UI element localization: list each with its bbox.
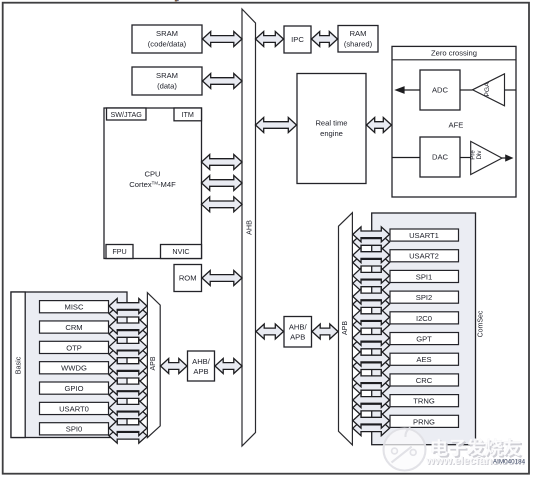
WWDG peripheral block [40, 362, 109, 374]
wire: APB to CRC (lower) [353, 379, 390, 394]
wire: ROM to AHB [202, 271, 242, 286]
wire: DAC to Pre Div [460, 157, 471, 159]
NVIC sub-block [161, 245, 202, 259]
SRAM (data) block [132, 67, 202, 95]
wire: CPU to AHB (bus 2) [202, 176, 243, 191]
svg-text:APB: APB [150, 356, 157, 370]
svg-text:(shared): (shared) [344, 40, 373, 49]
wire: CPU to AHB (bus 1) [202, 155, 243, 170]
wire: SPI0 to APB (lower) [109, 428, 147, 443]
USART1 peripheral block [390, 229, 459, 241]
I2C0 peripheral block [390, 312, 459, 324]
AHB bus label [244, 220, 253, 235]
svg-text:DAC: DAC [432, 153, 449, 162]
GPIO peripheral block [40, 382, 109, 394]
CRC peripheral block [390, 374, 459, 386]
wire: APB to USART2 (upper) [353, 248, 390, 263]
wire: IPC to RAM (shared) [312, 32, 338, 47]
svg-text:(code/data): (code/data) [148, 40, 187, 49]
OTP peripheral block [40, 341, 109, 353]
wire: AHB/APB bridge to APB (right) [312, 324, 338, 339]
svg-text:USART2: USART2 [409, 252, 439, 261]
svg-text:USART0: USART0 [59, 404, 89, 413]
wire: Pre Div output with right arrowhead [502, 154, 514, 161]
SRAM (code/data) block [132, 25, 202, 53]
SPI1 peripheral block [390, 270, 459, 282]
CRM peripheral block [40, 321, 109, 333]
Basic label [13, 356, 22, 374]
wire: APB to I2C0 (upper) [353, 310, 390, 325]
wire: GPIO to APB (lower) [109, 388, 147, 403]
wire: WWDG to APB (upper) [109, 360, 147, 375]
PRNG peripheral block [390, 415, 459, 427]
svg-text:AHB: AHB [244, 220, 253, 235]
wire: Real time engine to AFE [367, 118, 392, 133]
svg-text:GPIO: GPIO [65, 384, 84, 393]
wire: USART0 to APB (upper) [109, 400, 147, 415]
wire: APB to TRNG (lower) [353, 400, 390, 415]
svg-text:ROM: ROM [179, 274, 197, 283]
wire: OTP to APB (upper) [109, 339, 147, 354]
AHB bus bar [242, 9, 256, 446]
svg-text:CRM: CRM [65, 323, 82, 332]
svg-text:TRNG: TRNG [413, 397, 435, 406]
wire: MISC to APB (upper) [109, 299, 147, 314]
svg-text:AES: AES [416, 355, 431, 364]
CPU Cortex-M4F block [104, 108, 202, 259]
svg-text:AHB/: AHB/ [289, 323, 308, 332]
ROM block [174, 265, 202, 292]
AHB/APB bridge block (left) [188, 351, 215, 381]
svg-text:ComSec: ComSec [477, 310, 484, 337]
svg-text:PGA: PGA [484, 82, 491, 97]
svg-text:CRC: CRC [416, 376, 433, 385]
svg-text:NVIC: NVIC [172, 247, 189, 256]
Zero crossing header divider [392, 59, 516, 61]
svg-text:IPC: IPC [291, 35, 304, 44]
ITM sub-block [174, 108, 202, 121]
ADC block [420, 70, 460, 110]
svg-text:engine: engine [320, 129, 343, 138]
wire: APB to SPI2 (upper) [353, 289, 390, 304]
wire: CPU to AHB (bus 3) [202, 197, 243, 212]
svg-text:ITM: ITM [182, 110, 194, 119]
wire: APB to TRNG (upper) [353, 393, 390, 408]
svg-text:WWDG: WWDG [61, 364, 87, 373]
svg-text:CPU: CPU [144, 170, 160, 179]
AES peripheral block [390, 353, 459, 365]
wire: APB to GPT (lower) [353, 338, 390, 353]
SPI2 peripheral block [390, 291, 459, 303]
wire: WWDG to APB (lower) [109, 367, 147, 382]
wire: AFE edge to DAC [393, 157, 421, 159]
svg-text:GPT: GPT [416, 334, 432, 343]
stray speck (cropped text remnant at top) [175, 0, 179, 1]
wire: AHB to Real time engine [256, 118, 297, 133]
svg-text:SPI1: SPI1 [416, 272, 432, 281]
AFE label [449, 121, 464, 130]
wire: APB to I2C0 (lower) [353, 317, 390, 332]
RAM (shared) block [338, 26, 378, 53]
APB label (Basic side) [150, 356, 157, 370]
USART2 peripheral block [390, 250, 459, 262]
svg-text:USART1: USART1 [409, 231, 439, 240]
wire: MISC to APB (lower) [109, 306, 147, 321]
figure reference number [493, 458, 526, 465]
watermark logo circle [384, 428, 426, 471]
Pre Div divider triangle [470, 141, 502, 174]
AHB/APB bridge block (right) [284, 317, 312, 348]
svg-text:APB: APB [193, 367, 208, 376]
ComSec peripheral group box [372, 213, 476, 445]
svg-text:SRAM: SRAM [156, 71, 178, 80]
APB label (ComSec side) [342, 321, 349, 335]
svg-text:SW/JTAG: SW/JTAG [110, 110, 142, 119]
wire: ADC output with left arrowhead [394, 86, 420, 94]
wire: APB to PRNG (lower) [353, 421, 390, 436]
APB bus bar (Basic side) [147, 293, 160, 438]
SW/JTAG sub-block [107, 108, 147, 120]
SPI0 peripheral block [40, 423, 109, 435]
wire: APB to SPI1 (lower) [353, 276, 390, 291]
wire: CRM to APB (upper) [109, 319, 147, 334]
svg-text:I2C0: I2C0 [416, 314, 432, 323]
wire: GPIO to APB (upper) [109, 380, 147, 395]
MISC peripheral block [40, 301, 109, 313]
svg-text:SPI2: SPI2 [416, 293, 432, 302]
svg-text:SRAM: SRAM [156, 29, 178, 38]
wire: OTP to APB (lower) [109, 347, 147, 362]
svg-text:(data): (data) [157, 82, 177, 91]
wire: AHB/APB bridge to AHB (left) [215, 359, 242, 374]
GPT peripheral block [390, 333, 459, 345]
wire: APB to GPT (upper) [353, 330, 390, 345]
FPU sub-block [106, 245, 133, 259]
svg-text:SPI0: SPI0 [66, 425, 82, 434]
svg-text:APB: APB [290, 333, 305, 342]
wire: AHB to IPC [256, 32, 284, 47]
Basic peripheral group box [11, 292, 127, 438]
svg-text:AHB/: AHB/ [192, 357, 211, 366]
wire: SRAM (code/data) to AHB [203, 32, 243, 47]
DAC block [420, 137, 460, 177]
watermark chinese text dianzifashaoyou [432, 438, 523, 458]
svg-text:AFE: AFE [449, 121, 464, 130]
wire: SRAM (data) to AHB [203, 74, 243, 89]
wire: AFE edge to PGA input [505, 89, 516, 91]
wire: APB to USART1 (upper) [353, 227, 390, 242]
Basic label column [11, 292, 25, 438]
svg-text:ADC: ADC [432, 86, 449, 95]
wire: AHB to AHB/APB bridge (right) [256, 324, 284, 339]
svg-text:MISC: MISC [65, 303, 85, 312]
ComSec label [477, 310, 484, 337]
wire: CRM to APB (lower) [109, 327, 147, 342]
wire: APB to SPI2 (lower) [353, 297, 390, 312]
wire: SPI0 to APB (upper) [109, 421, 147, 436]
wire: APB to SPI1 (upper) [353, 268, 390, 283]
svg-text:PRNG: PRNG [413, 417, 435, 426]
watermark url text [425, 455, 525, 468]
svg-text:OTP: OTP [66, 343, 82, 352]
wire: APB to USART2 (lower) [353, 255, 390, 270]
PGA amplifier triangle [473, 74, 505, 106]
TRNG peripheral block [390, 395, 459, 407]
svg-text:Div: Div [476, 150, 483, 160]
AFE group box [392, 46, 516, 197]
wire: APB to AHB/APB bridge (left) [161, 359, 188, 374]
svg-text:RAM: RAM [350, 29, 367, 38]
svg-text:APB: APB [342, 321, 349, 335]
wire: APB to CRC (upper) [353, 372, 390, 387]
wire: APB to AES (lower) [353, 359, 390, 374]
Real time engine block [297, 74, 366, 184]
USART0 peripheral block [40, 402, 109, 414]
IPC block [284, 26, 311, 53]
svg-text:Zero crossing: Zero crossing [431, 49, 477, 58]
wire: USART0 to APB (lower) [109, 408, 147, 423]
svg-text:FPU: FPU [112, 247, 126, 256]
svg-text:Real time: Real time [315, 119, 347, 128]
wire: APB to USART1 (lower) [353, 235, 390, 250]
Zero crossing label [431, 49, 477, 58]
wire: APB to PRNG (upper) [353, 413, 390, 428]
wire: PGA to ADC [460, 89, 473, 91]
svg-text:Basic: Basic [13, 356, 22, 374]
wire: APB to AES (upper) [353, 351, 390, 366]
APB bus bar (ComSec side) [339, 213, 353, 445]
svg-text:AIM040184: AIM040184 [493, 458, 526, 465]
